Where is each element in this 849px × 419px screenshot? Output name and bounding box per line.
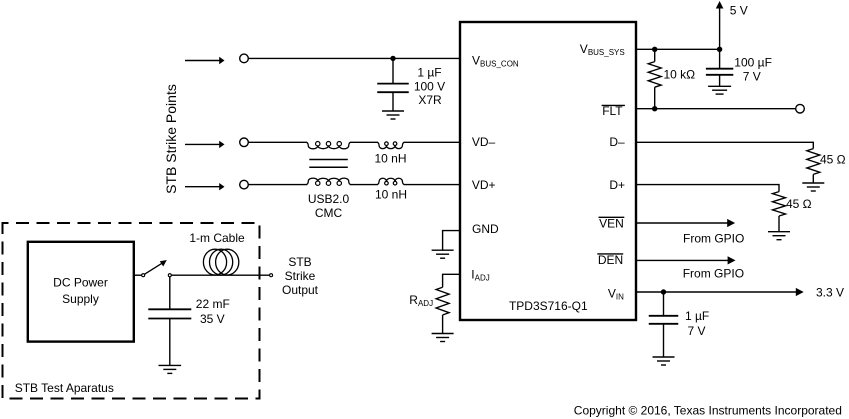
svg-text:100 µF: 100 µF bbox=[734, 55, 772, 69]
svg-text:Supply: Supply bbox=[62, 292, 99, 306]
svg-text:From GPIO: From GPIO bbox=[683, 232, 744, 246]
svg-text:VEN: VEN bbox=[599, 217, 624, 231]
svg-text:From GPIO: From GPIO bbox=[683, 267, 744, 281]
svg-text:CMC: CMC bbox=[315, 206, 343, 220]
svg-text:45 Ω: 45 Ω bbox=[820, 153, 846, 167]
svg-text:DC Power: DC Power bbox=[53, 276, 108, 290]
svg-text:1 µF: 1 µF bbox=[417, 66, 441, 80]
svg-text:1-m Cable: 1-m Cable bbox=[189, 231, 245, 245]
svg-text:100 V: 100 V bbox=[414, 79, 445, 93]
svg-text:7 V: 7 V bbox=[688, 324, 706, 338]
svg-text:22 mF: 22 mF bbox=[196, 297, 230, 311]
svg-text:GND: GND bbox=[472, 222, 499, 236]
svg-text:D+: D+ bbox=[609, 178, 625, 192]
svg-text:7 V: 7 V bbox=[743, 70, 761, 84]
svg-text:X7R: X7R bbox=[418, 93, 442, 107]
svg-text:STB: STB bbox=[288, 255, 311, 269]
svg-text:USB2.0: USB2.0 bbox=[308, 192, 350, 206]
svg-text:Strike: Strike bbox=[285, 269, 316, 283]
svg-text:Output: Output bbox=[282, 283, 319, 297]
svg-text:VD–: VD– bbox=[472, 135, 496, 149]
svg-text:DEN: DEN bbox=[598, 253, 623, 267]
svg-text:3.3 V: 3.3 V bbox=[816, 285, 844, 299]
svg-text:D–: D– bbox=[609, 135, 625, 149]
svg-text:Copyright © 2016, Texas Instru: Copyright © 2016, Texas Instruments Inco… bbox=[574, 404, 842, 418]
svg-text:45 Ω: 45 Ω bbox=[786, 197, 812, 211]
svg-text:STB Test Aparatus: STB Test Aparatus bbox=[15, 381, 114, 395]
svg-text:10 nH: 10 nH bbox=[374, 152, 406, 166]
svg-text:1 µF: 1 µF bbox=[685, 309, 709, 323]
svg-text:TPD3S716-Q1: TPD3S716-Q1 bbox=[509, 299, 588, 313]
svg-text:10 nH: 10 nH bbox=[375, 187, 407, 201]
svg-text:35 V: 35 V bbox=[200, 312, 225, 326]
svg-text:5 V: 5 V bbox=[730, 3, 748, 17]
svg-text:STB Strike Points: STB Strike Points bbox=[163, 84, 179, 194]
svg-text:VD+: VD+ bbox=[472, 178, 496, 192]
svg-text:10 kΩ: 10 kΩ bbox=[664, 68, 696, 82]
